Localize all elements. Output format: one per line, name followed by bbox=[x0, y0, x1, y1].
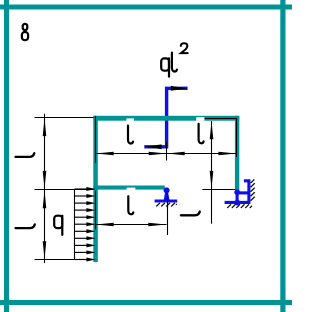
ext L along beam to right column bbox=[205, 119, 237, 158]
ext line right bottom horizontal bbox=[202, 189, 235, 191]
ext line through pin support bbox=[167, 194, 169, 209]
upper horizontal dimension line bbox=[96, 153, 237, 155]
hatches right of wall bbox=[251, 179, 255, 183]
label ql2: q bbox=[161, 58, 169, 70]
digit 8 bbox=[23, 24, 28, 30]
vertical link bbox=[236, 192, 239, 203]
ext line mid-left horizontal bbox=[35, 189, 94, 191]
left v-dim arrows bbox=[43, 118, 47, 136]
upper h-dim arrows bbox=[96, 152, 114, 156]
left column bbox=[93, 116, 98, 262]
moment arrowheads bbox=[145, 86, 188, 149]
superscript 2 bbox=[181, 43, 188, 53]
label ql2: l bbox=[172, 53, 177, 72]
lower beam bbox=[93, 186, 165, 190]
dimension and extension lines (black thin) bbox=[35, 114, 237, 263]
frame members (teal) bbox=[93, 116, 239, 262]
text mask right l bbox=[196, 117, 204, 121]
right sliding-fixed support (blue) bbox=[225, 179, 255, 208]
text mask left l bbox=[126, 118, 134, 121]
bottom bar bbox=[225, 201, 251, 204]
left vertical dimension line bbox=[44, 114, 46, 263]
lower horizontal dimension line bbox=[96, 224, 167, 226]
top beam bbox=[93, 116, 239, 121]
right vertical dimension line bbox=[211, 121, 213, 224]
label l upper-left bbox=[128, 126, 133, 144]
distributed load arrows q bbox=[75, 187, 96, 262]
right column bbox=[235, 116, 239, 191]
dimension arrowheads bbox=[43, 118, 237, 259]
rotated l label #3 (right v-dim) bbox=[181, 212, 200, 216]
top link bbox=[237, 191, 249, 194]
label l lower bbox=[128, 196, 133, 214]
ext line top-left horizontal bbox=[35, 117, 94, 119]
rotated l label #1 (upper-left dim) bbox=[16, 153, 35, 157]
right v-dim arrows bbox=[210, 121, 214, 139]
ext line below left column bbox=[95, 191, 97, 230]
distributed load backbone bbox=[74, 189, 76, 260]
label l upper-right bbox=[199, 124, 204, 144]
ext line bottom-left horizontal bbox=[35, 259, 79, 261]
rotated l label #2 (lower-left dim) bbox=[16, 224, 35, 228]
hatches below bottom bar bbox=[227, 204, 231, 208]
ext line below pin support bbox=[167, 204, 169, 235]
pin support (blue) bbox=[155, 187, 178, 208]
wall with top hook bbox=[244, 181, 249, 204]
applied moment ql^2 (blue Z line) bbox=[144, 88, 187, 147]
labels (technical stroked glyphs) bbox=[22, 24, 204, 235]
ext line center (under moment) bbox=[166, 142, 168, 161]
text mask lower l bbox=[127, 188, 136, 191]
lower h-dim arrows bbox=[96, 223, 114, 227]
label q (load) bbox=[54, 216, 62, 228]
ext line at left column bbox=[95, 116, 97, 163]
